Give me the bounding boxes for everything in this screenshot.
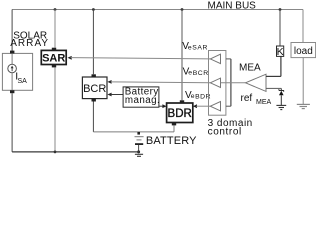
tick BCR bottom	[92, 99, 96, 102]
wire bus to SAR top	[54, 10, 56, 48]
BCR box	[82, 77, 107, 99]
domain control box	[209, 51, 226, 116]
battery management box	[123, 87, 159, 107]
svg-text:e: e	[188, 70, 192, 77]
wire MEA output to amp2	[221, 82, 246, 84]
svg-text:manag.: manag.	[125, 95, 160, 106]
ground zener	[276, 104, 286, 106]
battery plate thick dark	[135, 143, 143, 145]
arrow into SAR right	[68, 56, 72, 60]
solar array box	[2, 53, 32, 90]
wire BCR bottom to battery line	[92, 102, 94, 132]
wire amp1 input to rail	[226, 58, 231, 60]
wire Ve SAR line	[71, 58, 211, 59]
svg-text:SAR: SAR	[42, 53, 65, 65]
wire MEA top input from K	[266, 75, 281, 77]
svg-text:MEA: MEA	[256, 99, 272, 106]
current source ISA circle	[8, 64, 17, 73]
wire SAR bottom to return rail	[54, 67, 56, 151]
wire K down	[280, 57, 282, 77]
arrow into BCR right lower (from battery manag)	[107, 93, 111, 97]
node bus-BCR junction	[92, 8, 95, 11]
tick BCR top	[92, 74, 96, 77]
svg-text:MEA: MEA	[239, 62, 261, 73]
ground battery line2	[135, 153, 143, 155]
wire MEA ref input	[266, 87, 281, 89]
svg-text:ARRAY: ARRAY	[10, 38, 49, 49]
node SAR-rail junction	[54, 151, 57, 154]
node battery-rail junction	[137, 150, 140, 153]
tick BDR bottom	[172, 123, 176, 126]
node bus-K junction	[279, 8, 282, 11]
wire Ve BCR line	[111, 81, 211, 84]
amp SAR domain triangle	[210, 54, 220, 63]
svg-text:BATTERY: BATTERY	[146, 135, 197, 147]
wire inside solar box bottom	[11, 73, 13, 91]
wire main bus horizontal	[12, 9, 303, 11]
amp BCR domain triangle	[210, 78, 220, 87]
node bus-SAR junction	[54, 8, 57, 11]
svg-text:e: e	[191, 93, 195, 100]
arrow into BCR right top (Ve BCR)	[107, 80, 111, 84]
tick battery top	[137, 132, 140, 135]
wire return rail	[12, 151, 139, 153]
tick solar array bottom	[10, 90, 14, 93]
wire zener to ground	[280, 95, 282, 105]
tick BDR top	[180, 100, 184, 103]
wire amp3 input to rail	[226, 105, 231, 107]
ground load	[297, 103, 310, 105]
battery plate long top	[135, 136, 144, 138]
wire battery to ground	[138, 145, 140, 152]
tick SAR bottom	[52, 65, 56, 68]
ground battery line3	[137, 155, 141, 157]
wire load to ground	[302, 58, 304, 105]
SAR box	[41, 50, 66, 64]
svg-text:SAR: SAR	[192, 45, 208, 52]
node bus-BDR junction	[181, 8, 184, 11]
arrow into BDR right (Ve BDR)	[193, 104, 197, 108]
wire Ve BDR line	[196, 105, 210, 107]
wire battery line horizontal	[93, 131, 174, 133]
battery plate short	[137, 139, 142, 141]
svg-text:control: control	[208, 126, 242, 137]
wire bus right end down to load	[302, 10, 304, 43]
svg-text:ref: ref	[241, 93, 253, 104]
wire BDR bottom to battery line	[173, 125, 175, 131]
svg-text:BDR: BDR	[168, 108, 192, 120]
tick SAR top	[52, 48, 56, 51]
wire solar array to return rail	[11, 93, 13, 152]
svg-text:BCR: BCR	[193, 70, 209, 77]
wire bus to BCR top	[92, 10, 94, 75]
wire bus to K box	[279, 10, 281, 47]
tick solar array top	[10, 51, 14, 54]
zener diode reference	[280, 88, 282, 90]
svg-text:SA: SA	[18, 78, 28, 85]
svg-text:BCR: BCR	[83, 83, 106, 95]
wire inside solar box top	[11, 53, 13, 64]
load box	[291, 43, 316, 58]
wire rail vertical	[230, 59, 232, 106]
current source arrow	[11, 67, 13, 72]
svg-text:K: K	[277, 46, 284, 58]
op-amp MEA triangle	[246, 74, 267, 91]
wire bus to BDR top	[181, 10, 183, 101]
svg-text:e: e	[188, 44, 192, 51]
amp BDR domain triangle	[210, 102, 220, 111]
arrow into BDR left	[162, 104, 166, 108]
K box	[277, 46, 284, 56]
svg-text:load: load	[294, 46, 313, 57]
BDR box	[167, 103, 193, 123]
wire battery manag to BDR	[159, 105, 163, 107]
wire battery manag to BCR	[111, 94, 123, 96]
wire bus left drop to solar array	[11, 10, 13, 54]
